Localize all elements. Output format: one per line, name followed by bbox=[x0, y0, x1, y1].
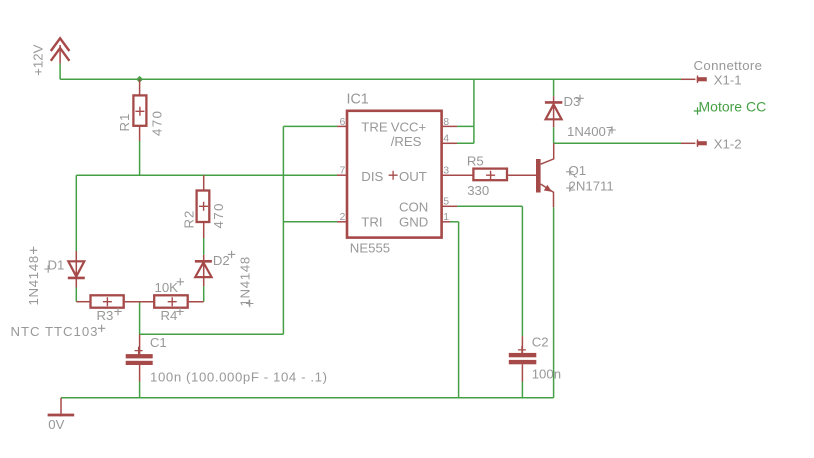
svg-text:+12V: +12V bbox=[30, 44, 45, 75]
svg-text:TRI: TRI bbox=[361, 214, 382, 229]
svg-text:NE555: NE555 bbox=[350, 240, 390, 255]
svg-text:C2: C2 bbox=[532, 334, 549, 349]
svg-text:R2: R2 bbox=[182, 210, 197, 229]
svg-text:100n: 100n bbox=[532, 367, 561, 382]
svg-text:OUT: OUT bbox=[399, 169, 427, 184]
svg-text:X1-2: X1-2 bbox=[714, 137, 742, 152]
svg-text:1N4148: 1N4148 bbox=[238, 256, 253, 306]
svg-text:2: 2 bbox=[339, 211, 345, 223]
svg-text:R4: R4 bbox=[161, 308, 178, 323]
svg-text:R5: R5 bbox=[467, 153, 484, 168]
svg-text:Motore CC: Motore CC bbox=[699, 98, 767, 114]
svg-text:X1-1: X1-1 bbox=[714, 72, 742, 87]
svg-text:Q1: Q1 bbox=[569, 163, 587, 178]
svg-text:VCC+: VCC+ bbox=[391, 119, 427, 134]
svg-text:1: 1 bbox=[443, 211, 449, 223]
svg-text:3: 3 bbox=[443, 164, 449, 176]
svg-text:Connettore: Connettore bbox=[694, 58, 763, 73]
svg-text:R1: R1 bbox=[117, 113, 132, 132]
svg-text:TRE: TRE bbox=[361, 119, 388, 134]
svg-text:R3: R3 bbox=[97, 308, 114, 323]
svg-text:1N4148: 1N4148 bbox=[26, 255, 41, 305]
svg-text:6: 6 bbox=[339, 116, 345, 128]
svg-text:/RES: /RES bbox=[391, 134, 422, 149]
svg-text:470: 470 bbox=[150, 109, 165, 136]
svg-text:2N1711: 2N1711 bbox=[569, 179, 614, 194]
svg-text:D3: D3 bbox=[564, 94, 581, 109]
svg-text:470: 470 bbox=[211, 202, 226, 229]
svg-text:8: 8 bbox=[443, 116, 449, 128]
svg-text:10K: 10K bbox=[155, 280, 179, 295]
svg-text:NTC TTC103: NTC TTC103 bbox=[11, 324, 98, 339]
svg-text:100n (100.000pF - 104 - .1): 100n (100.000pF - 104 - .1) bbox=[150, 369, 327, 384]
svg-text:CON: CON bbox=[399, 200, 428, 215]
svg-text:1N4007: 1N4007 bbox=[567, 124, 613, 139]
svg-text:IC1: IC1 bbox=[347, 91, 369, 107]
svg-text:D2: D2 bbox=[213, 253, 230, 268]
svg-text:GND: GND bbox=[399, 214, 428, 229]
svg-text:0V: 0V bbox=[48, 417, 64, 432]
svg-text:C1: C1 bbox=[150, 335, 167, 350]
svg-text:4: 4 bbox=[443, 133, 449, 145]
svg-text:D1: D1 bbox=[48, 257, 65, 272]
svg-text:5: 5 bbox=[443, 196, 449, 208]
svg-text:7: 7 bbox=[339, 164, 345, 176]
svg-text:DIS: DIS bbox=[361, 169, 383, 184]
svg-text:330: 330 bbox=[467, 183, 489, 198]
